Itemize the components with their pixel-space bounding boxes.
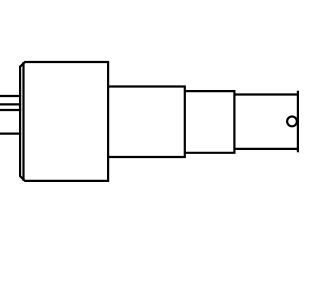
lead wire 2 <box>0 103 21 105</box>
cylinder section 3 top edge <box>234 93 298 95</box>
lead wire 4 <box>0 133 21 135</box>
lead wire 3 <box>0 109 21 111</box>
main body (chamfered housing) <box>20 62 108 181</box>
end cap line <box>297 91 299 153</box>
hole (circle) <box>287 117 297 127</box>
cylinder section 1 <box>108 87 185 158</box>
cylinder section 3 bottom edge <box>234 148 298 150</box>
lead wire 1 <box>0 95 21 97</box>
cylinder section 2 <box>185 91 235 153</box>
body seam line <box>22 62 24 181</box>
